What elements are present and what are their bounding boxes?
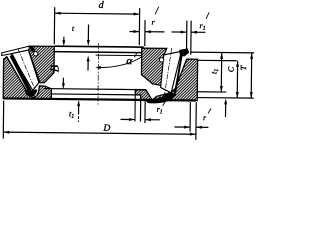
dim d extension left (53, 7, 55, 44)
dim d arrow right (134, 13, 140, 16)
label r bottom tick (208, 108, 211, 113)
dim d arrow left (55, 12, 61, 15)
cup inner lip right (135, 90, 152, 100)
dim r top arrow left (133, 30, 139, 33)
dim r top arrow right (145, 30, 151, 33)
cup (housing ring) right section (152, 59, 197, 101)
rivet circle left (33, 52, 37, 56)
svg-text:r: r (203, 113, 207, 122)
washer (shaft ring) left section (28, 46, 54, 83)
bore back edge 3 (96, 54, 142, 56)
dim d line (55, 12, 140, 15)
right extension bottom (198, 97, 254, 100)
dim t1 right line (220, 53, 222, 92)
washer (shaft ring) right section (141, 48, 166, 85)
dim r1 top tails (171, 31, 186, 33)
svg-text:α: α (126, 55, 132, 67)
dim B bottom arrow (62, 78, 64, 84)
label r1 bottom tick (163, 101, 166, 106)
dim r1 top arrows (181, 31, 187, 34)
svg-text:C: C (226, 66, 235, 72)
dim r top tails (129, 30, 139, 32)
cage right top blob (179, 48, 189, 56)
dim d extension right (138, 8, 140, 45)
dim r top extension (144, 20, 146, 46)
dim D line (3, 132, 195, 134)
ledge back edge 2 (51, 93, 135, 96)
alpha leader arrow (95, 66, 100, 69)
bottom face (4, 98, 196, 100)
svg-text:r1: r1 (199, 21, 205, 32)
svg-text:t1: t1 (209, 69, 220, 74)
cage left foot (24, 89, 37, 96)
dim T right line (250, 53, 252, 98)
svg-text:T: T (239, 65, 248, 70)
dim t top lower arrow (87, 62, 89, 71)
rivet circle right (159, 58, 163, 62)
alpha leader (98, 56, 142, 68)
dim r bottom tails (174, 126, 190, 128)
svg-text:r1: r1 (157, 105, 163, 116)
dim r1 top extensions (186, 21, 188, 53)
cage right band (174, 51, 183, 94)
dim C right line (236, 61, 238, 98)
cage left top blob (30, 46, 36, 52)
dim r1 bottom tails (120, 118, 134, 120)
dim D arrows (3, 131, 9, 134)
washer lip left (2, 46, 30, 56)
ledge back edge 1 (44, 89, 146, 90)
dim B top arrow (63, 37, 65, 41)
bore back edge 2 (54, 51, 141, 54)
right extension ledge (198, 91, 226, 93)
cage left band (9, 54, 37, 93)
cage right foot (146, 92, 176, 104)
label r top tick (155, 7, 159, 15)
right extension cup top (198, 59, 237, 61)
svg-text:r: r (151, 18, 155, 27)
roller left centerline (17, 48, 36, 92)
label r1 top tick (206, 12, 209, 19)
small arrow below right bottom ext (225, 101, 227, 117)
bore back edge top (54, 45, 143, 48)
svg-text:t: t (72, 24, 75, 33)
roller right centerline (164, 48, 172, 97)
roller left (11, 50, 40, 91)
dim D extension left (2, 101, 4, 139)
dim r bottom arrows (184, 126, 190, 129)
alpha tick (134, 53, 136, 57)
dim t top upper arrow (87, 25, 89, 41)
svg-text:t1: t1 (69, 109, 74, 120)
axis centerline (97, 43, 100, 104)
roller right (161, 51, 182, 93)
dim t1 bottom arrow (78, 104, 80, 114)
dim D extension right (195, 102, 197, 139)
cup (housing ring) left section (3, 57, 52, 99)
svg-text:D: D (102, 124, 110, 134)
svg-text:d: d (99, 0, 105, 11)
dim r1 bottom extensions (134, 95, 136, 122)
svg-text:B: B (47, 64, 61, 72)
right extension top face (190, 51, 254, 54)
dim r1 bottom arrows (129, 118, 135, 121)
dim r bottom extension (189, 102, 191, 131)
